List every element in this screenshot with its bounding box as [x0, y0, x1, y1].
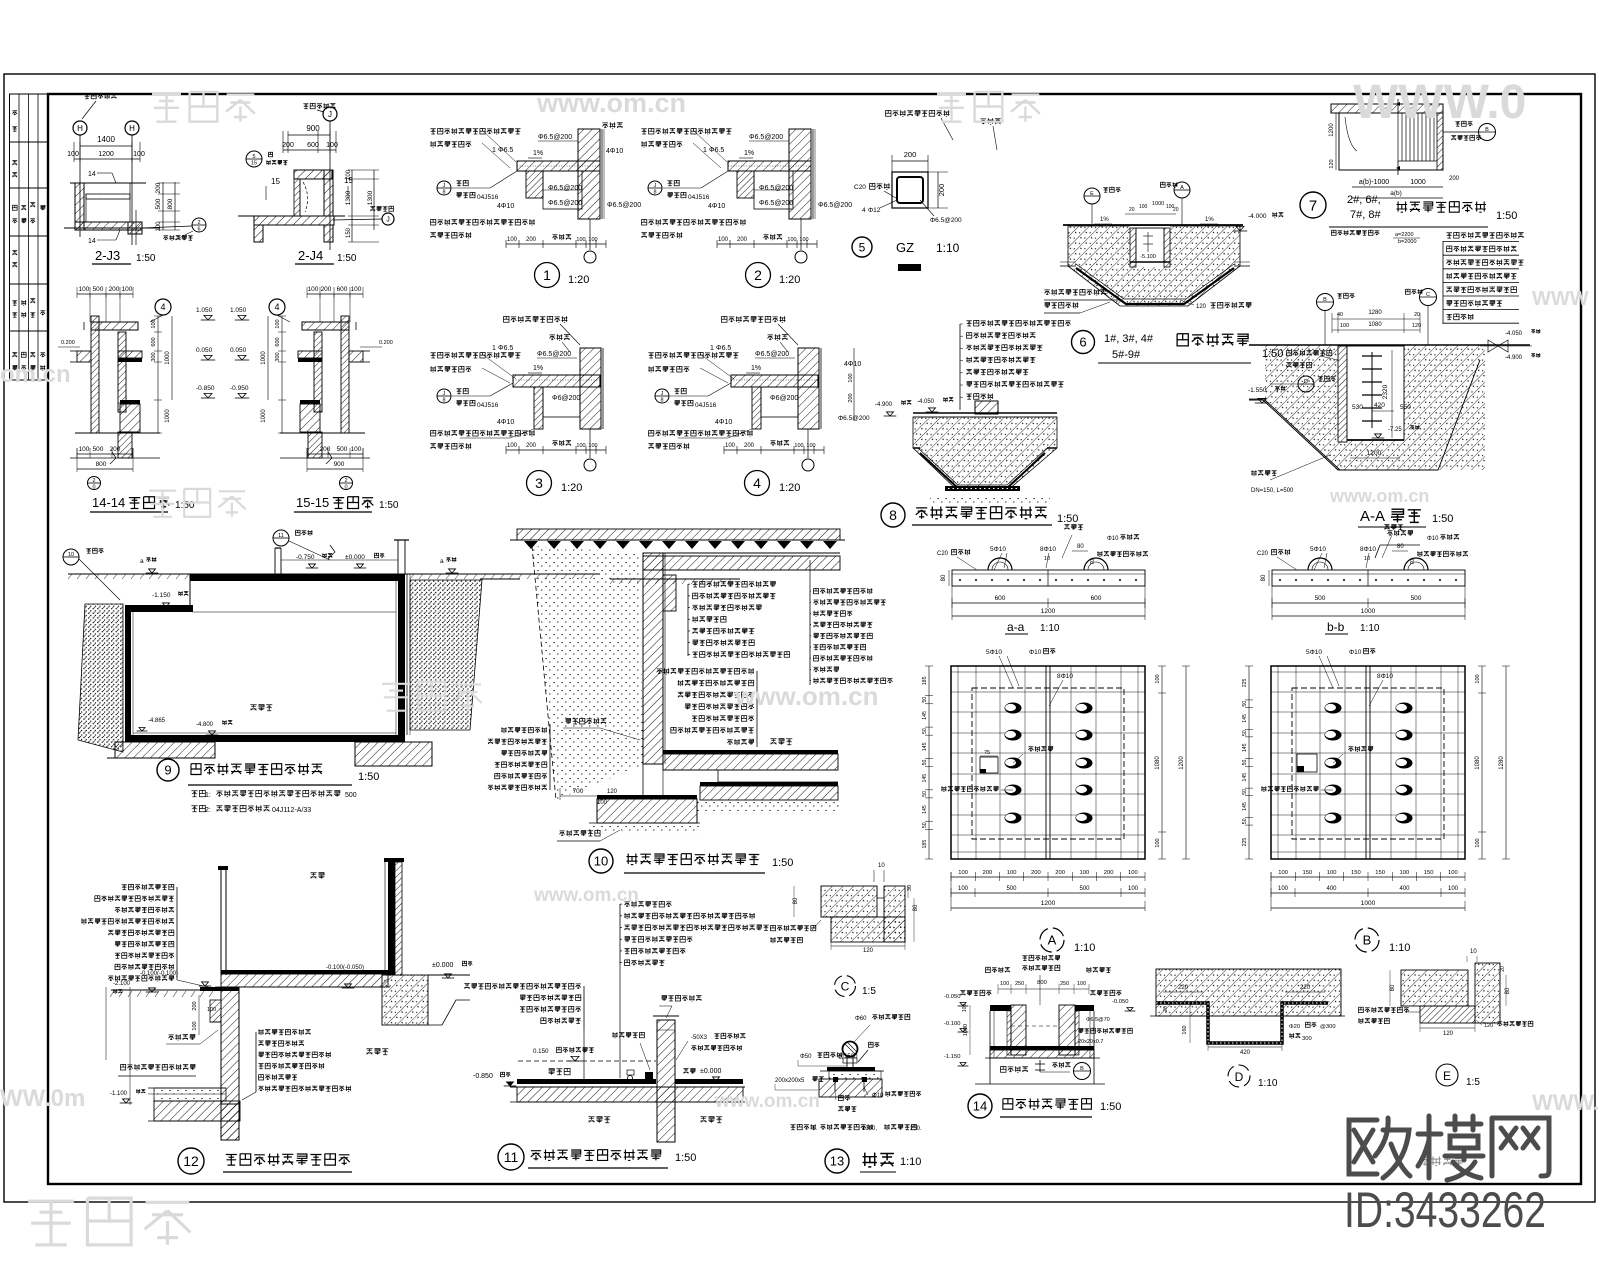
svg-text:420: 420	[1240, 1050, 1251, 1056]
svg-text:om.cn: om.cn	[0, 361, 71, 388]
svg-text:500: 500	[1006, 886, 1017, 892]
svg-text:200: 200	[983, 870, 993, 876]
svg-text:600: 600	[995, 595, 1006, 602]
svg-text:20: 20	[1500, 966, 1506, 972]
svg-text:9: 9	[164, 763, 171, 778]
svg-text:-4.900: -4.900	[1505, 355, 1523, 361]
svg-text:Φ6.5@200: Φ6.5@200	[759, 185, 793, 192]
svg-text:500: 500	[155, 198, 162, 209]
svg-text:11: 11	[278, 533, 284, 539]
svg-text:50: 50	[922, 760, 928, 766]
svg-text:100: 100	[958, 870, 968, 876]
svg-text:200: 200	[192, 1001, 198, 1010]
svg-text:E: E	[1090, 191, 1094, 197]
svg-text:200: 200	[155, 182, 162, 193]
svg-text:1:50: 1:50	[675, 1152, 696, 1164]
svg-text:500: 500	[337, 446, 348, 453]
svg-text:20x20x0.7: 20x20x0.7	[1078, 1039, 1103, 1045]
svg-text:145: 145	[922, 805, 928, 814]
svg-text:1080: 1080	[1475, 756, 1481, 770]
svg-text:WW.0m: WW.0m	[0, 1085, 85, 1112]
svg-text:8: 8	[889, 507, 897, 523]
svg-text:550: 550	[1400, 404, 1411, 411]
svg-text:-1.150: -1.150	[152, 592, 171, 599]
svg-text:Φ6.5: Φ6.5	[709, 147, 724, 154]
svg-text:120: 120	[1196, 304, 1207, 310]
svg-text:4: 4	[274, 302, 279, 312]
svg-text:Φ6@200: Φ6@200	[552, 395, 580, 402]
svg-text:120: 120	[863, 948, 874, 954]
svg-text:-1.100: -1.100	[110, 1091, 128, 1097]
svg-text:500: 500	[1079, 886, 1090, 892]
svg-text:200: 200	[1449, 176, 1460, 182]
svg-text:800: 800	[96, 461, 107, 468]
svg-text:5: 5	[859, 240, 866, 254]
svg-text:Φ10: Φ10	[1029, 649, 1042, 656]
svg-text:-0.850: -0.850	[196, 385, 215, 392]
svg-text:225: 225	[1242, 838, 1248, 847]
svg-text:100: 100	[346, 169, 352, 180]
svg-text:300: 300	[151, 352, 157, 361]
svg-text:GZ: GZ	[896, 240, 914, 255]
svg-text:8: 8	[660, 398, 663, 404]
svg-text:600: 600	[307, 142, 319, 149]
svg-text:145: 145	[922, 742, 928, 751]
svg-text:-2.100: -2.100	[113, 981, 131, 987]
svg-text:Φ10: Φ10	[1349, 649, 1362, 656]
svg-text:a-a: a-a	[1007, 620, 1025, 634]
svg-text:1:50: 1:50	[1100, 1101, 1121, 1113]
svg-text:0.050: 0.050	[230, 347, 247, 354]
svg-text:20: 20	[1129, 207, 1135, 213]
svg-text:-0.950: -0.950	[230, 385, 249, 392]
svg-text:E: E	[1443, 1069, 1451, 1083]
svg-text:145: 145	[1242, 714, 1248, 723]
svg-text:8Φ10: 8Φ10	[1360, 546, 1376, 553]
svg-text:50: 50	[1242, 818, 1248, 824]
svg-text:900: 900	[334, 461, 345, 468]
svg-text:1:20: 1:20	[779, 274, 800, 286]
svg-text:100: 100	[1155, 674, 1161, 683]
svg-text:a: a	[440, 558, 444, 565]
svg-text:80: 80	[1261, 574, 1267, 581]
svg-text:200: 200	[526, 237, 537, 243]
svg-text:-1.150: -1.150	[944, 1054, 960, 1060]
svg-text:WWW.: WWW.	[1532, 1090, 1599, 1115]
svg-text:-0.100: -0.100	[944, 1021, 960, 1027]
svg-text:J: J	[443, 183, 446, 189]
svg-text:100: 100	[597, 800, 608, 806]
svg-text:-0.050: -0.050	[944, 994, 960, 1000]
svg-text:www.om.cn: www.om.cn	[1329, 486, 1429, 506]
svg-text:1:50: 1:50	[1496, 210, 1517, 222]
svg-text:-50X3: -50X3	[691, 1035, 708, 1041]
svg-text:800: 800	[167, 198, 174, 209]
svg-text:100: 100	[1475, 838, 1481, 847]
svg-text:4Φ10: 4Φ10	[497, 203, 514, 210]
svg-text:-7.25: -7.25	[1388, 427, 1402, 433]
svg-text:10: 10	[594, 854, 608, 869]
svg-text:200: 200	[1104, 870, 1114, 876]
svg-text:0: 0	[344, 485, 347, 491]
svg-text:100: 100	[192, 1021, 198, 1030]
svg-text:0.200: 0.200	[61, 340, 75, 346]
svg-text:600: 600	[151, 337, 157, 346]
svg-text:C20: C20	[854, 184, 866, 191]
svg-text:1:10: 1:10	[1040, 623, 1060, 634]
svg-text:150: 150	[346, 227, 352, 238]
svg-text:500: 500	[1411, 595, 1422, 602]
svg-text:1200: 1200	[1041, 900, 1056, 907]
svg-text:70: 70	[1410, 559, 1416, 565]
svg-text:100: 100	[1139, 204, 1148, 210]
svg-text:145: 145	[1242, 773, 1248, 782]
svg-text:a: a	[140, 558, 144, 565]
svg-text:50: 50	[1242, 760, 1248, 766]
svg-text:2320: 2320	[1382, 384, 1389, 399]
svg-text:7: 7	[1309, 197, 1317, 214]
svg-text:1200: 1200	[1179, 756, 1185, 770]
svg-text:C20: C20	[937, 551, 949, 557]
svg-text:11: 11	[504, 1149, 519, 1165]
svg-text:a=2200: a=2200	[1395, 232, 1414, 238]
svg-text:10: 10	[1364, 556, 1370, 562]
svg-text:-1.550: -1.550	[1248, 387, 1267, 394]
svg-text:200: 200	[109, 286, 120, 293]
svg-text:150: 150	[1424, 870, 1434, 876]
svg-text:300: 300	[1302, 1036, 1312, 1042]
svg-text:-0.100(-0.050): -0.100(-0.050)	[326, 965, 364, 971]
svg-text:1:20: 1:20	[779, 482, 800, 494]
svg-text:B: B	[1363, 933, 1372, 948]
svg-text:100: 100	[1340, 323, 1349, 329]
svg-text:14: 14	[88, 238, 96, 245]
svg-text:04J516: 04J516	[695, 402, 717, 409]
svg-text:2-J4: 2-J4	[298, 248, 323, 263]
svg-text:1: 1	[543, 267, 551, 283]
svg-text:50: 50	[1242, 730, 1248, 736]
svg-text:4Φ10: 4Φ10	[708, 203, 725, 210]
svg-text:5#-9#: 5#-9#	[1112, 349, 1141, 361]
svg-text:15-15: 15-15	[296, 495, 329, 510]
svg-text:1:50: 1:50	[136, 253, 156, 264]
svg-text:C: C	[841, 980, 850, 994]
svg-text:1:50: 1:50	[358, 771, 379, 783]
svg-text:1280: 1280	[1499, 756, 1505, 770]
svg-text:4: 4	[160, 302, 165, 312]
svg-text:100: 100	[122, 286, 133, 293]
svg-text:A-A: A-A	[1360, 508, 1385, 525]
svg-text:4Φ10: 4Φ10	[715, 419, 732, 426]
svg-text:1000: 1000	[1361, 608, 1376, 615]
svg-text:Φ12: Φ12	[868, 207, 881, 214]
svg-text:145: 145	[922, 711, 928, 720]
svg-text:100: 100	[962, 1004, 968, 1013]
svg-text:a(b): a(b)	[1390, 190, 1402, 197]
svg-text:2: 2	[344, 478, 347, 484]
svg-text:1000: 1000	[261, 351, 267, 365]
svg-text:1:50: 1:50	[772, 857, 793, 869]
svg-text:Φ6.5@200: Φ6.5@200	[548, 200, 582, 207]
svg-text:220: 220	[1300, 985, 1311, 991]
svg-text:1: 1	[492, 345, 496, 352]
svg-text:-4.800: -4.800	[196, 722, 214, 728]
svg-text:100: 100	[1327, 870, 1337, 876]
svg-text:100: 100	[507, 237, 518, 243]
svg-text:100: 100	[576, 237, 585, 243]
svg-text:4Φ10: 4Φ10	[606, 148, 623, 155]
svg-text:B: B	[1323, 297, 1327, 303]
svg-text:100: 100	[351, 286, 362, 293]
svg-text:04J112-A/33: 04J112-A/33	[272, 807, 311, 814]
svg-text:-0.850: -0.850	[473, 1073, 493, 1080]
svg-text:200: 200	[526, 443, 537, 449]
svg-text:1000: 1000	[1152, 201, 1164, 207]
svg-text:4: 4	[753, 475, 761, 491]
svg-text:100: 100	[1155, 838, 1161, 847]
svg-text:1:5: 1:5	[862, 986, 876, 997]
svg-text:145: 145	[1242, 802, 1248, 811]
svg-text:J: J	[661, 391, 664, 397]
svg-text:J: J	[654, 183, 657, 189]
svg-text:1.050: 1.050	[230, 307, 247, 314]
svg-text:400: 400	[1326, 886, 1337, 892]
svg-text:100: 100	[848, 373, 854, 382]
svg-text:4: 4	[862, 207, 866, 214]
svg-text:1000: 1000	[1361, 900, 1376, 907]
svg-text:±0.000: ±0.000	[700, 1068, 721, 1075]
svg-text:100: 100	[1448, 886, 1459, 892]
svg-text:500: 500	[93, 446, 104, 453]
svg-text:1080: 1080	[1368, 322, 1382, 328]
svg-text:1280: 1280	[1368, 310, 1382, 316]
svg-text:14: 14	[88, 171, 96, 178]
svg-text:200: 200	[904, 150, 917, 159]
svg-text:100: 100	[1077, 981, 1086, 987]
svg-text:100: 100	[207, 1007, 216, 1013]
svg-text:Φ6.5@200: Φ6.5@200	[537, 351, 571, 358]
svg-text:1300,: 1300,	[862, 1126, 877, 1132]
svg-text:1000: 1000	[165, 351, 171, 365]
svg-text:2: 2	[197, 220, 200, 226]
svg-text:J: J	[386, 217, 390, 224]
svg-text:100: 100	[67, 151, 79, 158]
svg-text:www.om.cn: www.om.cn	[734, 681, 879, 711]
svg-text:b=2000: b=2000	[1398, 239, 1417, 245]
svg-text:04J516: 04J516	[477, 402, 499, 409]
svg-text:1000: 1000	[165, 409, 171, 423]
svg-text:8: 8	[442, 190, 445, 196]
svg-text:80: 80	[1077, 544, 1084, 550]
svg-text:10: 10	[878, 863, 885, 869]
svg-text:2:: 2:	[205, 807, 211, 814]
svg-text:120: 120	[1329, 159, 1335, 168]
svg-text:Φ6.5@200: Φ6.5@200	[749, 134, 783, 141]
svg-text:100: 100	[787, 237, 796, 243]
svg-text:1200: 1200	[98, 151, 114, 158]
svg-text:4Φ10: 4Φ10	[497, 419, 514, 426]
svg-text:a(b)-1000: a(b)-1000	[1359, 179, 1389, 186]
svg-text:100: 100	[1448, 870, 1458, 876]
svg-text:20: 20	[1173, 207, 1179, 213]
svg-text:Φ6.5@200: Φ6.5@200	[838, 415, 870, 422]
svg-text:1:50: 1:50	[1432, 513, 1453, 525]
svg-text:100: 100	[1007, 870, 1017, 876]
svg-text:5Φ10: 5Φ10	[1306, 649, 1322, 656]
svg-text:www.om.cn: www.om.cn	[536, 88, 686, 118]
svg-text:50: 50	[1242, 789, 1248, 795]
svg-text:Φ6@200: Φ6@200	[770, 395, 798, 402]
svg-text:Φ6.5@200: Φ6.5@200	[930, 217, 962, 224]
svg-text:1.050: 1.050	[196, 307, 213, 314]
svg-text:250: 250	[1060, 981, 1069, 987]
svg-text:H: H	[77, 124, 83, 133]
svg-text:100: 100	[79, 286, 90, 293]
svg-text:1.: 1.	[812, 1126, 817, 1132]
svg-text:1%: 1%	[751, 365, 761, 372]
svg-text:1:10: 1:10	[1074, 942, 1095, 954]
svg-text:50: 50	[922, 822, 928, 828]
svg-text:Φ6.5: Φ6.5	[498, 147, 513, 154]
svg-text:-0.750: -0.750	[296, 554, 315, 561]
svg-text:160: 160	[1182, 1025, 1188, 1034]
svg-text:10: 10	[1470, 949, 1477, 955]
svg-text:DN=150, L=500: DN=150, L=500	[1251, 488, 1294, 494]
svg-text:1000: 1000	[1410, 179, 1426, 186]
svg-text:Φ6.5: Φ6.5	[498, 345, 513, 352]
svg-text:1080: 1080	[1155, 756, 1161, 770]
svg-text:-4.050: -4.050	[917, 399, 935, 405]
svg-text:1:10: 1:10	[1389, 942, 1410, 954]
svg-text:1%: 1%	[533, 365, 543, 372]
svg-text:50: 50	[922, 697, 928, 703]
svg-text:1%: 1%	[533, 150, 543, 157]
svg-text:100: 100	[576, 443, 585, 449]
svg-text:100: 100	[1278, 886, 1289, 892]
svg-text:Φ6.5: Φ6.5	[716, 345, 731, 352]
svg-text:1:10: 1:10	[1360, 623, 1380, 634]
svg-text:1000: 1000	[261, 409, 267, 423]
svg-text:80: 80	[1397, 544, 1404, 550]
svg-text:100: 100	[1400, 870, 1410, 876]
svg-text:200: 200	[1055, 870, 1065, 876]
svg-text:2-J3: 2-J3	[95, 248, 120, 263]
svg-text:±0.000: ±0.000	[345, 554, 365, 561]
svg-text:0.150: 0.150	[533, 1048, 549, 1055]
svg-text:4Φ10: 4Φ10	[844, 361, 861, 368]
svg-text:@300: @300	[1320, 1024, 1336, 1030]
svg-text:C20: C20	[1257, 551, 1269, 557]
svg-text:800: 800	[1037, 980, 1047, 986]
svg-text:-4.900: -4.900	[875, 402, 893, 408]
svg-text:D: D	[1304, 379, 1308, 385]
svg-text:Φ50: Φ50	[800, 1054, 812, 1060]
svg-text:b-b: b-b	[1327, 620, 1345, 634]
svg-text:250: 250	[1015, 981, 1024, 987]
svg-text:5Φ10: 5Φ10	[986, 649, 1002, 656]
svg-text:A: A	[1048, 933, 1057, 948]
svg-text:20: 20	[1414, 312, 1420, 318]
svg-text:J: J	[328, 110, 332, 119]
svg-text:3: 3	[535, 475, 543, 491]
svg-text:1300: 1300	[367, 190, 374, 205]
svg-text:100: 100	[275, 319, 281, 328]
svg-text:8: 8	[442, 398, 445, 404]
svg-text:145: 145	[922, 774, 928, 783]
svg-text:700: 700	[573, 788, 584, 795]
svg-text:Φ10: Φ10	[872, 1093, 884, 1099]
svg-text:200: 200	[744, 443, 755, 449]
svg-text:8Φ10: 8Φ10	[1057, 673, 1073, 680]
svg-text:500: 500	[345, 792, 357, 799]
svg-text:100: 100	[1128, 886, 1139, 892]
svg-text:200x200x5: 200x200x5	[775, 1078, 805, 1084]
svg-text:100: 100	[794, 443, 803, 449]
svg-text:100: 100	[308, 286, 319, 293]
svg-text:1%: 1%	[1100, 217, 1109, 223]
svg-text:Φ6.5@200: Φ6.5@200	[607, 202, 641, 209]
svg-text:100: 100	[1278, 870, 1288, 876]
svg-text:A: A	[1180, 185, 1184, 191]
svg-text:100: 100	[133, 151, 145, 158]
svg-text:0: 0	[92, 485, 95, 491]
svg-text:04J516: 04J516	[477, 194, 499, 201]
svg-text:500: 500	[1315, 595, 1326, 602]
svg-text:1:20: 1:20	[561, 482, 582, 494]
svg-text:70: 70	[1090, 559, 1096, 565]
svg-text:200: 200	[321, 286, 332, 293]
svg-text:200: 200	[1031, 870, 1041, 876]
svg-text:04J516: 04J516	[688, 194, 710, 201]
svg-text:15: 15	[271, 177, 280, 186]
svg-text:2: 2	[92, 478, 95, 484]
svg-text:C: C	[1426, 292, 1430, 298]
svg-text:50: 50	[922, 791, 928, 797]
svg-text:120: 120	[1484, 1023, 1493, 1029]
svg-text:14-14: 14-14	[92, 495, 125, 510]
svg-text:50: 50	[922, 728, 928, 734]
svg-text:1:10: 1:10	[936, 241, 960, 255]
svg-text:Φ10: Φ10	[1427, 536, 1439, 542]
svg-text:200: 200	[110, 446, 121, 453]
svg-text:6: 6	[197, 227, 200, 233]
svg-text:Φ6.5@200: Φ6.5@200	[538, 134, 572, 141]
svg-text:1:: 1:	[205, 792, 211, 799]
svg-text:100: 100	[156, 221, 162, 232]
svg-text:14: 14	[973, 1099, 987, 1114]
svg-text:20: 20	[1163, 1006, 1169, 1012]
svg-text:120: 120	[1443, 1031, 1454, 1037]
svg-text:200: 200	[737, 237, 748, 243]
svg-text:185: 185	[922, 676, 928, 685]
svg-text:1400: 1400	[97, 135, 115, 144]
svg-text:ID:3433262: ID:3433262	[1344, 1182, 1546, 1238]
svg-text:Φ6.5@200: Φ6.5@200	[548, 185, 582, 192]
svg-text:8Φ10: 8Φ10	[1377, 673, 1393, 680]
svg-text:Φ6.5@200: Φ6.5@200	[818, 202, 852, 209]
svg-text:-4.865: -4.865	[148, 718, 166, 724]
svg-text:100: 100	[718, 237, 729, 243]
svg-text:100: 100	[1475, 674, 1481, 683]
svg-text:2: 2	[754, 267, 762, 283]
svg-text:-5.100: -5.100	[1140, 254, 1156, 260]
svg-text:Φ10: Φ10	[1107, 536, 1119, 542]
svg-text:185: 185	[922, 840, 928, 849]
svg-text:1: 1	[492, 147, 496, 154]
svg-text:1200: 1200	[1041, 608, 1056, 615]
svg-text:530: 530	[1352, 404, 1363, 411]
svg-text:D: D	[1235, 1070, 1244, 1084]
